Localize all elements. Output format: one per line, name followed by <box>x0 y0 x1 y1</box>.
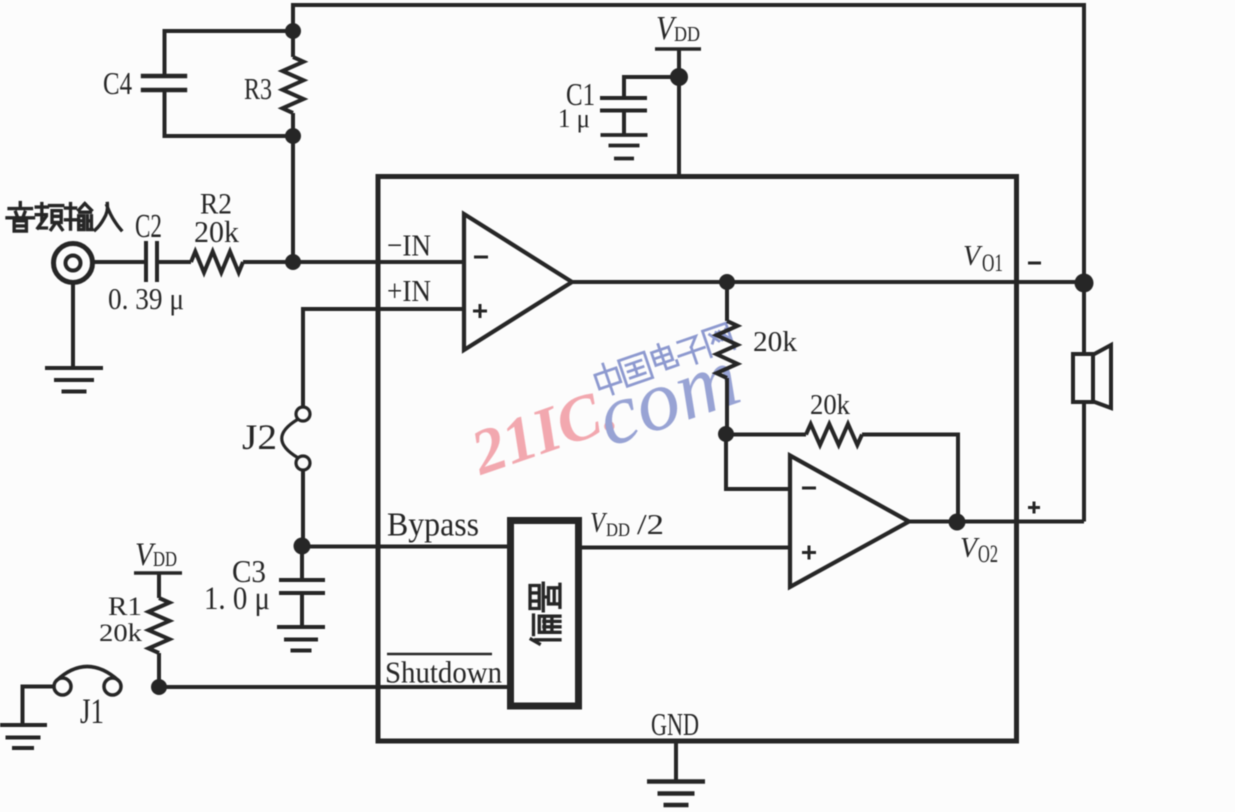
wire R3 bottom to -IN line <box>291 136 295 262</box>
node VO1 speaker junction <box>1075 274 1094 293</box>
label VDD/2 <box>590 508 664 541</box>
wire C4 branch bottom <box>165 92 294 136</box>
svg-text:J1: J1 <box>80 691 104 731</box>
capacitor C4 <box>141 76 187 90</box>
wire feedback right segment <box>862 435 958 523</box>
svg-text:GND: GND <box>651 706 699 742</box>
wire VDD/2 to U1B plus <box>578 546 790 550</box>
wire inverting input U1B <box>726 434 790 489</box>
svg-text:20k: 20k <box>99 620 143 647</box>
wire shutdown line <box>159 685 510 689</box>
wire R2 to -IN <box>243 260 464 264</box>
IC box U1 <box>378 177 1017 742</box>
wire J2 to bypass node <box>301 470 305 546</box>
svg-text:/2: /2 <box>637 509 664 541</box>
speaker <box>1073 345 1111 408</box>
capacitor C2 <box>146 241 157 282</box>
wire C2 to R2 <box>159 260 191 264</box>
svg-text:O1: O1 <box>982 250 1003 277</box>
resistor 20k feedback <box>806 424 862 445</box>
plus sign at VO2 <box>1028 502 1040 514</box>
U1A minus sign <box>474 256 488 259</box>
wire top rail from R3 top to speaker column <box>293 5 1084 283</box>
label VO1 <box>963 241 1003 277</box>
node bypass junction <box>294 538 311 555</box>
minus sign at VO1 <box>1028 262 1041 265</box>
resistor R3 <box>283 31 304 136</box>
op-amp U1A <box>464 214 572 350</box>
node R1/J1 junction <box>151 679 167 695</box>
node VDD/C1 junction <box>670 68 688 86</box>
U1A plus sign <box>473 304 487 318</box>
power VDD bottom left <box>134 537 182 573</box>
svg-text:Bypass: Bypass <box>387 507 479 544</box>
wire speaker column <box>1082 283 1086 354</box>
svg-text:DD: DD <box>674 22 700 46</box>
capacitor C3 <box>279 546 325 627</box>
node feedback junction <box>718 426 734 442</box>
power VDD top <box>655 10 701 49</box>
wire feedback left segment <box>726 433 806 437</box>
svg-text:O2: O2 <box>978 541 998 568</box>
wire VO2 output <box>909 520 1084 524</box>
node R3 bottom junction <box>285 128 301 144</box>
svg-text:V: V <box>590 508 608 539</box>
wire VDD to IC top <box>677 49 681 176</box>
svg-text:20k: 20k <box>810 389 850 421</box>
node R2/R3 junction <box>285 254 301 270</box>
svg-text:V: V <box>960 533 980 564</box>
watermark 21IC pink text <box>461 373 625 489</box>
svg-text:J2: J2 <box>242 417 277 457</box>
svg-text:C4: C4 <box>103 65 132 101</box>
svg-text:+IN: +IN <box>387 273 431 308</box>
svg-text:0. 39 μ: 0. 39 μ <box>108 281 184 316</box>
ground at J1 <box>0 723 47 727</box>
svg-text:−IN: −IN <box>387 228 431 263</box>
wire +IN line <box>303 309 464 407</box>
svg-text:20k: 20k <box>753 326 798 358</box>
U1B plus sign <box>802 546 816 560</box>
resistor R2 <box>191 252 243 273</box>
label Shutdown with overline <box>385 654 502 690</box>
svg-text:Shutdown: Shutdown <box>385 655 502 690</box>
watermark com blue script <box>584 328 751 465</box>
input jack connector <box>54 244 93 283</box>
bias label 置 <box>530 583 560 611</box>
label VO2 <box>960 533 998 568</box>
wire C4 branch top <box>165 31 294 74</box>
svg-text:C2: C2 <box>135 208 162 245</box>
wire VO1 output <box>572 280 1084 284</box>
jumper J1 <box>54 667 121 696</box>
wire to C1 <box>624 77 679 96</box>
U1B minus sign <box>802 487 816 490</box>
svg-text:V: V <box>963 241 983 272</box>
watermark chinese 中国电子网 <box>592 323 734 397</box>
wire speaker bottom <box>1082 402 1086 522</box>
node U1B output junction <box>949 514 966 531</box>
resistor 20k vertical <box>717 282 738 434</box>
svg-text:1 μ: 1 μ <box>558 104 590 133</box>
wire GND stem <box>674 743 678 781</box>
svg-text:DD: DD <box>153 547 177 571</box>
wire bypass to bias box <box>302 545 508 549</box>
label 音频输入 (audio input) <box>7 203 121 232</box>
wire jack to C2 <box>92 260 144 264</box>
ground under C3 <box>277 625 325 629</box>
svg-text:R3: R3 <box>244 71 272 106</box>
svg-text:1. 0 μ: 1. 0 μ <box>204 581 270 617</box>
node U1A output junction <box>719 274 735 290</box>
ground at GND <box>647 779 705 784</box>
bias label 偏 <box>531 615 560 644</box>
wire J1 to ground <box>23 687 55 724</box>
bias block 偏置 <box>511 521 579 707</box>
jumper J2 <box>282 407 310 470</box>
capacitor C1 <box>600 98 647 135</box>
svg-text:20k: 20k <box>194 214 239 249</box>
svg-text:DD: DD <box>606 520 630 541</box>
svg-text:R1: R1 <box>108 592 142 621</box>
node R3 top junction <box>285 23 301 39</box>
ground under input jack <box>45 282 103 392</box>
op-amp U1B <box>790 456 909 588</box>
resistor R1 <box>149 573 170 687</box>
ground under C1 <box>601 133 648 137</box>
